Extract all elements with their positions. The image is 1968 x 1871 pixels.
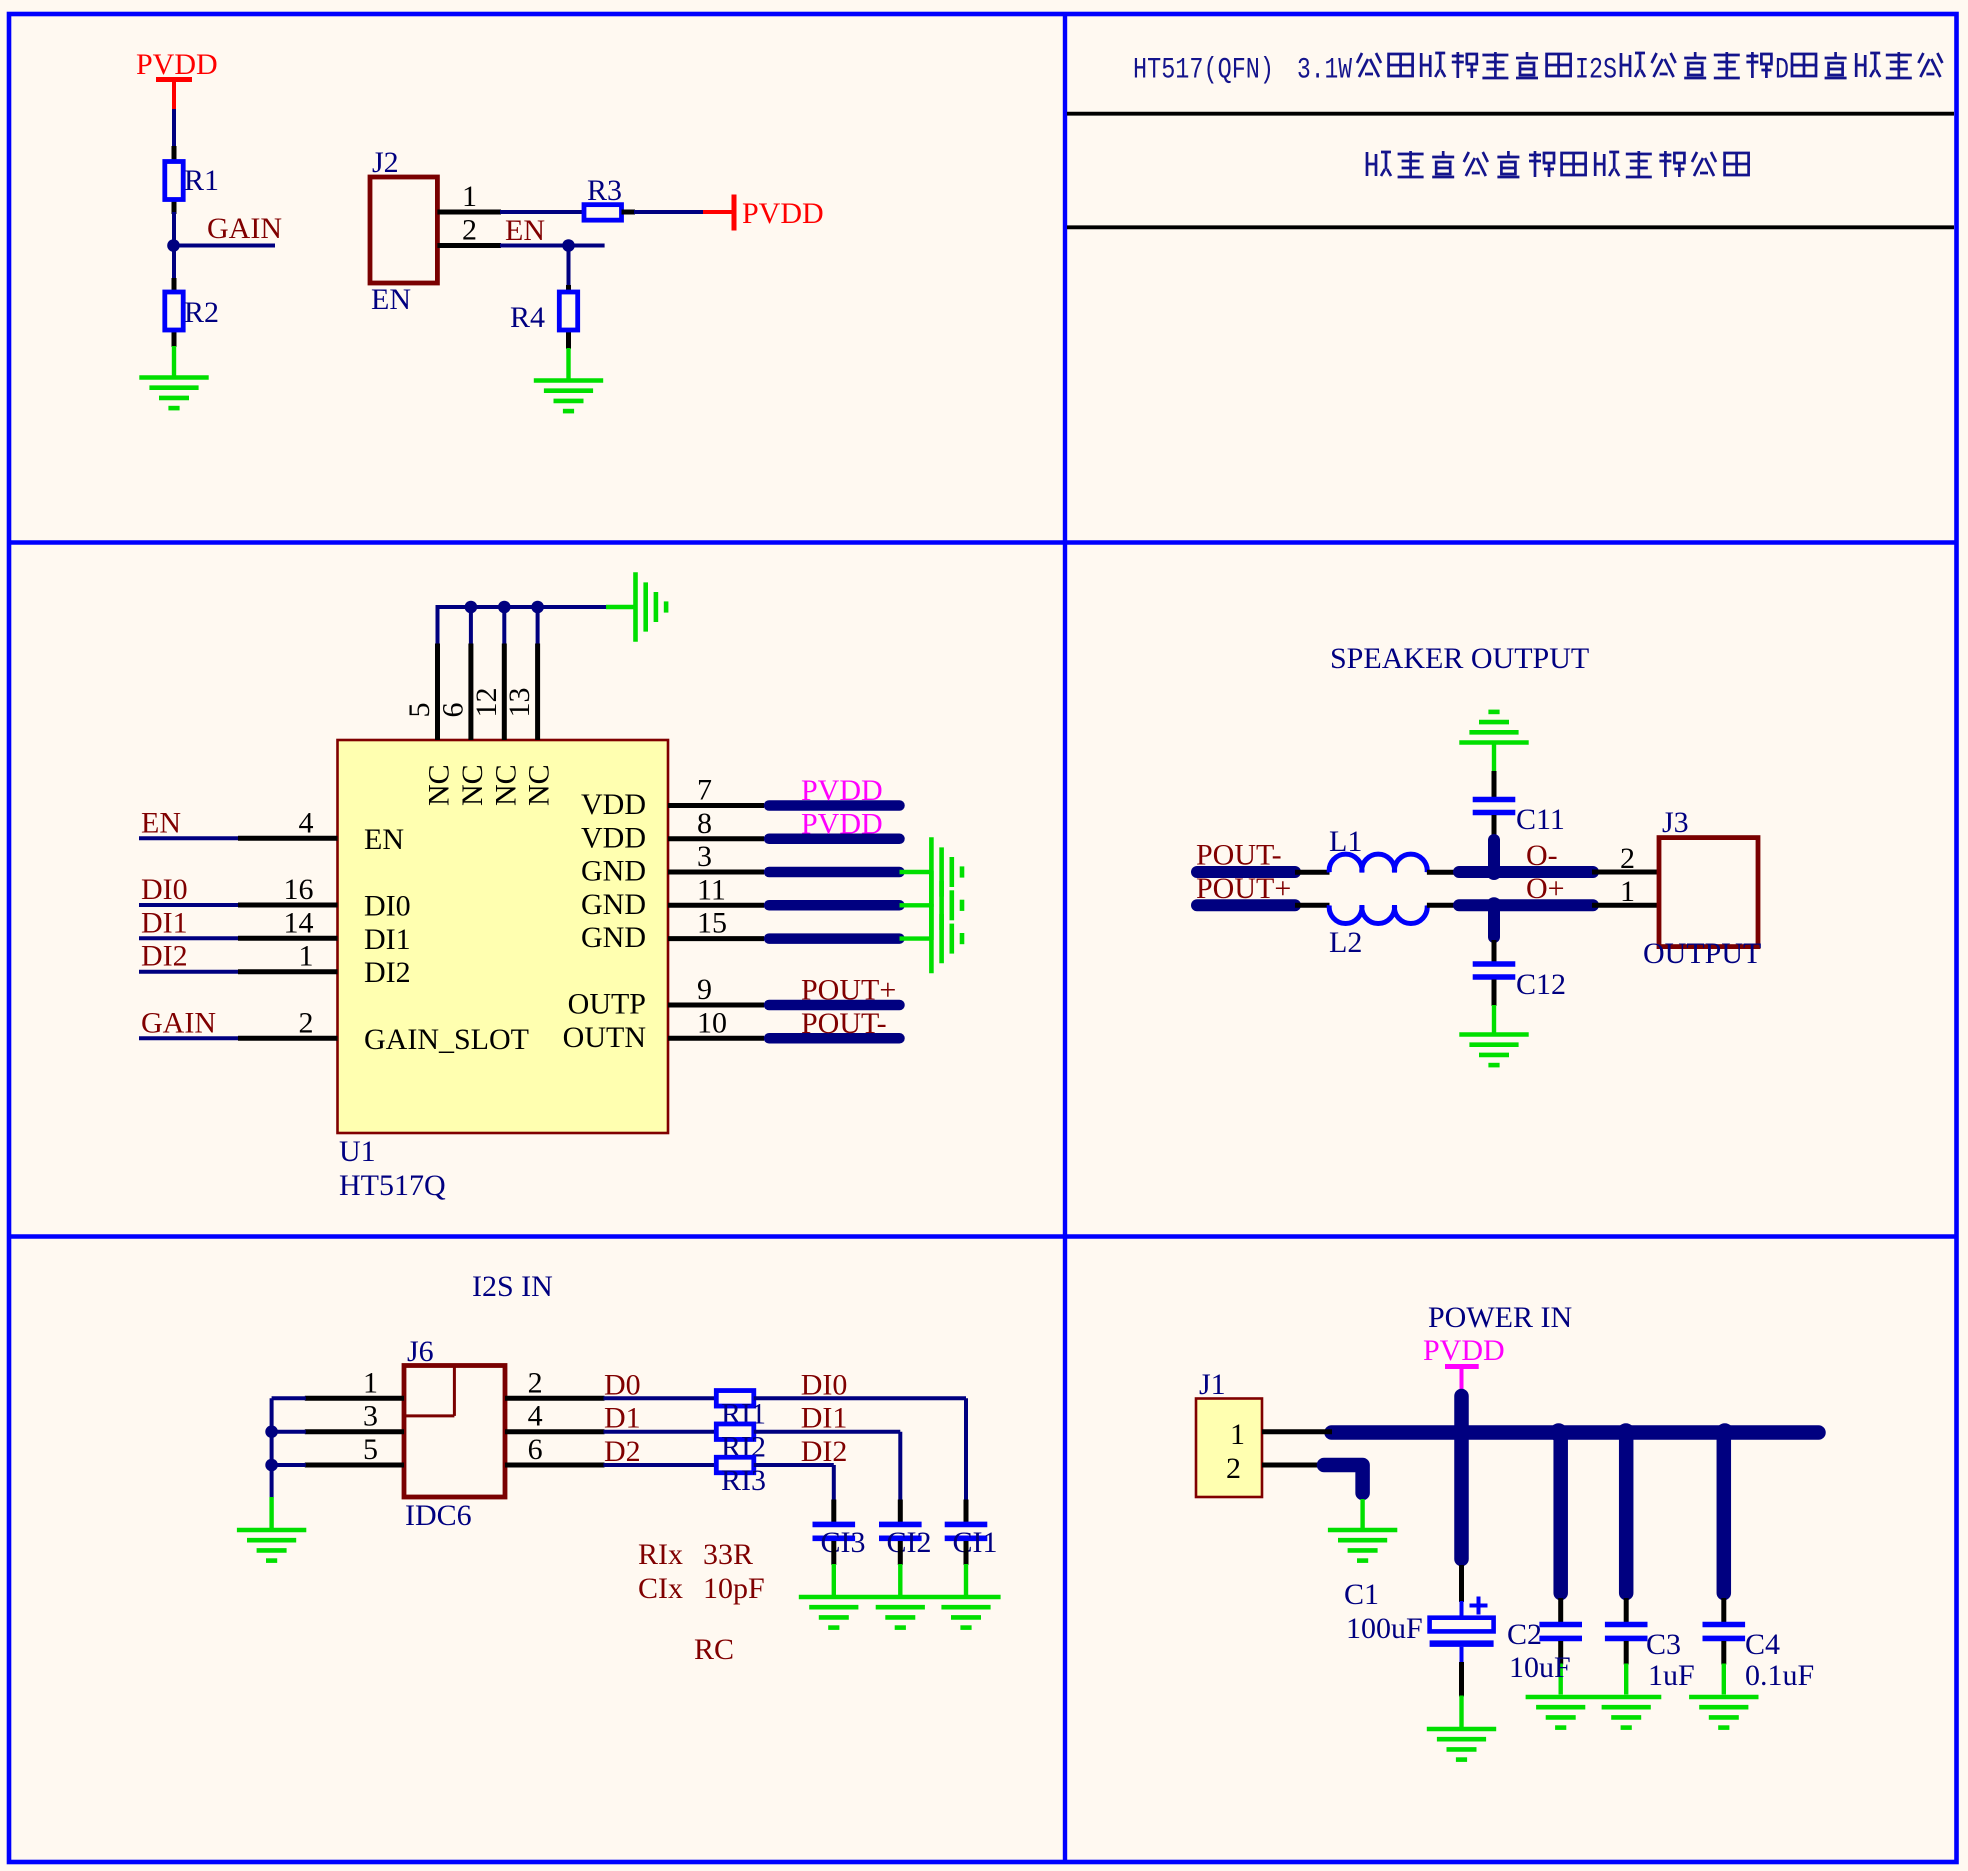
ground shared top bar (CI1-CI3) xyxy=(799,1595,1001,1600)
ground (J1.2) xyxy=(1328,1530,1397,1561)
svg-text:PVDD: PVDD xyxy=(136,48,218,81)
svg-text:3: 3 xyxy=(363,1400,378,1433)
svg-text:NC: NC xyxy=(489,764,522,806)
ground (R4) xyxy=(534,381,603,412)
pin 2 of J6 xyxy=(505,1396,605,1401)
pin 3 of U1 (GND) xyxy=(668,870,764,875)
svg-text:2: 2 xyxy=(462,214,477,247)
svg-text:DI0: DI0 xyxy=(364,890,411,923)
svg-text:NC: NC xyxy=(456,764,489,806)
svg-text:7: 7 xyxy=(697,774,712,807)
svg-text:EN: EN xyxy=(505,214,545,247)
svg-text:1: 1 xyxy=(1230,1418,1245,1451)
wire DI0 net (U1 left) xyxy=(139,903,239,907)
svg-text:NC: NC xyxy=(423,764,456,806)
svg-text:SPEAKER OUTPUT: SPEAKER OUTPUT xyxy=(1330,642,1589,675)
pin 2 of J2 xyxy=(437,243,501,248)
resistor RI3 xyxy=(716,1457,754,1473)
wire power bus xyxy=(1332,1425,1819,1440)
svg-text:EN: EN xyxy=(364,823,404,856)
node junction (NC bus) xyxy=(531,601,544,614)
resistor R1 xyxy=(165,146,183,214)
svg-text:U1: U1 xyxy=(339,1135,376,1168)
svg-text:GAIN: GAIN xyxy=(207,212,282,245)
ground shared bar (C2 C3) xyxy=(1526,1697,1662,1728)
svg-text:CI2: CI2 xyxy=(887,1526,932,1559)
svg-text:GND: GND xyxy=(581,855,646,888)
pin 15 of U1 (GND) xyxy=(668,936,764,941)
ground (U1 pin 3) xyxy=(931,837,962,906)
node GAIN junction xyxy=(167,239,180,252)
svg-text:10uF: 10uF xyxy=(1509,1651,1571,1684)
svg-text:DI0: DI0 xyxy=(141,873,188,906)
wire R1 to R2 (GAIN node) xyxy=(172,212,176,280)
pin 16 of U1 (DI0) xyxy=(238,903,338,908)
svg-text:C1: C1 xyxy=(1344,1578,1379,1611)
svg-text:R1: R1 xyxy=(184,164,219,197)
wire PVDD to bus xyxy=(1454,1396,1469,1433)
svg-text:PVDD: PVDD xyxy=(801,774,883,807)
wire green tail (pin 3) xyxy=(900,870,930,874)
wire O- thick xyxy=(1459,866,1593,878)
svg-text:D: D xyxy=(1775,53,1789,87)
svg-text:GND: GND xyxy=(581,921,646,954)
svg-text:HT517Q: HT517Q xyxy=(339,1169,446,1202)
power symbol PVDD (right of R3) xyxy=(703,195,824,231)
ground (below C12) xyxy=(1459,1035,1528,1066)
wire thick net (pin 11) xyxy=(769,900,900,911)
wire NC bus green tail xyxy=(606,605,634,609)
svg-text:4: 4 xyxy=(528,1400,543,1433)
pin 1 of U1 (DI2) xyxy=(238,969,338,974)
value note CIx 10pF xyxy=(638,1572,765,1605)
wire bus to C2 xyxy=(1553,1433,1568,1623)
IC U1 HT517Q body xyxy=(338,740,669,1133)
svg-text:J2: J2 xyxy=(372,146,399,179)
svg-text:GAIN_SLOT: GAIN_SLOT xyxy=(364,1023,529,1056)
svg-text:R2: R2 xyxy=(184,296,219,329)
svg-text:9: 9 xyxy=(697,973,712,1006)
svg-text:DI2: DI2 xyxy=(141,940,188,973)
ground bars (CI1) xyxy=(941,1607,990,1627)
wire POUT- stub xyxy=(1197,866,1295,878)
svg-text:POUT+: POUT+ xyxy=(1196,872,1291,905)
pin 6 of U1 (NC) xyxy=(469,605,473,740)
pin 1 of J6 xyxy=(305,1396,404,1401)
svg-text:2: 2 xyxy=(1226,1452,1241,1485)
svg-text:PVDD: PVDD xyxy=(1423,1334,1505,1367)
svg-text:RI3: RI3 xyxy=(721,1464,766,1497)
ground (U1 pin 15) xyxy=(931,904,962,973)
pin 11 of U1 (GND) xyxy=(668,903,764,908)
wire NC bus to ground xyxy=(438,605,607,609)
svg-text:L2: L2 xyxy=(1329,926,1362,959)
svg-text:0.1uF: 0.1uF xyxy=(1745,1659,1814,1692)
svg-text:100uF: 100uF xyxy=(1346,1612,1423,1645)
svg-text:1: 1 xyxy=(363,1366,378,1399)
wire J1.2 to ground (thick elbow) xyxy=(1324,1465,1363,1493)
capacitor C4 xyxy=(1703,1622,1746,1628)
svg-text:12: 12 xyxy=(470,688,503,718)
svg-text:PVDD: PVDD xyxy=(742,197,824,230)
title block separator lines xyxy=(1067,114,1954,228)
svg-text:POWER IN: POWER IN xyxy=(1428,1301,1572,1334)
resistor R2 xyxy=(165,278,183,347)
svg-text:1: 1 xyxy=(462,180,477,213)
svg-text:L1: L1 xyxy=(1329,825,1362,858)
pin 3 of J6 xyxy=(305,1429,404,1434)
svg-text:RC: RC xyxy=(694,1633,734,1666)
svg-text:3.1W: 3.1W xyxy=(1297,53,1352,87)
wire POUT+ to L2 xyxy=(1295,903,1330,908)
capacitor CI1 xyxy=(945,1522,988,1528)
capacitor C12 xyxy=(1473,961,1516,967)
wire J6.5 to ground rail xyxy=(272,1463,306,1467)
wire O+ to C12 xyxy=(1488,906,1500,962)
svg-text:GAIN: GAIN xyxy=(141,1006,216,1039)
pin 5 of J6 xyxy=(305,1463,404,1468)
wire C12 to ground xyxy=(1492,980,1497,1035)
svg-text:J3: J3 xyxy=(1662,806,1689,839)
svg-text:CIx: CIx xyxy=(638,1572,683,1605)
svg-text:33R: 33R xyxy=(703,1538,753,1571)
wire green tail (pin 11) xyxy=(900,903,930,907)
svg-text:5: 5 xyxy=(403,703,436,718)
wire L1 to O- xyxy=(1427,870,1456,875)
svg-text:J6: J6 xyxy=(407,1335,434,1368)
svg-text:CI1: CI1 xyxy=(953,1526,998,1559)
wire CI3 to ground xyxy=(831,1541,836,1595)
title line 2: Shenzhen Yongfukang Technology Co. Ltd. xyxy=(1367,151,1749,177)
wire GAIN net (U1 left) xyxy=(139,1036,239,1040)
wire green tail (pin 15) xyxy=(900,936,930,940)
svg-text:3: 3 xyxy=(697,840,712,873)
pin 10 of U1 (OUTN) xyxy=(668,1036,764,1041)
node junction (NC bus) xyxy=(498,601,511,614)
svg-text:6: 6 xyxy=(436,703,469,718)
resistor R4 xyxy=(559,285,577,349)
title line 1: HT517(QFN) 3.1W small low-power I2S mono class-D amp xyxy=(1133,52,1942,87)
svg-text:OUTPUT: OUTPUT xyxy=(1643,937,1761,970)
wire J6 left ground rail xyxy=(270,1398,274,1498)
connector J1 xyxy=(1196,1399,1262,1498)
wire rail to ground xyxy=(269,1497,273,1529)
ground (R2) xyxy=(139,378,208,409)
svg-text:1: 1 xyxy=(299,940,314,973)
resistor RI2 xyxy=(716,1424,754,1440)
svg-text:IDC6: IDC6 xyxy=(405,1499,472,1532)
ground bars (CI2) xyxy=(876,1607,925,1627)
node junction (bus-C4) xyxy=(1716,1423,1734,1441)
capacitor C11 xyxy=(1473,797,1516,803)
svg-text:EN: EN xyxy=(141,806,181,839)
wire L2 to O+ xyxy=(1427,903,1456,908)
svg-text:RIx: RIx xyxy=(638,1538,683,1571)
wire thick net (pin 9) xyxy=(769,1000,900,1011)
wire CI1 to ground xyxy=(964,1541,969,1595)
svg-text:DI1: DI1 xyxy=(801,1402,848,1435)
svg-text:CI3: CI3 xyxy=(821,1526,866,1559)
svg-text:O+: O+ xyxy=(1526,872,1565,905)
svg-text:POUT-: POUT- xyxy=(1196,839,1282,872)
connector J2 xyxy=(370,177,437,283)
svg-text:11: 11 xyxy=(697,873,726,906)
svg-text:VDD: VDD xyxy=(581,821,646,854)
svg-text:OUTP: OUTP xyxy=(568,988,646,1021)
svg-text:2: 2 xyxy=(299,1006,314,1039)
svg-text:I2S IN: I2S IN xyxy=(472,1270,553,1303)
wire RI1 to DI0 column xyxy=(754,1398,966,1522)
svg-text:1uF: 1uF xyxy=(1648,1659,1695,1692)
wire D2 to RI3 xyxy=(604,1463,718,1467)
svg-text:NC: NC xyxy=(523,764,556,806)
svg-text:J1: J1 xyxy=(1199,1368,1226,1401)
wire C3 to ground xyxy=(1624,1641,1629,1695)
wire bus to C3 xyxy=(1619,1433,1634,1623)
svg-text:POUT+: POUT+ xyxy=(801,974,896,1007)
wire C2 to ground xyxy=(1558,1641,1563,1695)
wire DI2 net (U1 left) xyxy=(139,970,239,974)
wire R4 to ground xyxy=(566,348,570,380)
wire POUT- to L1 xyxy=(1295,870,1330,875)
capacitor C3 xyxy=(1605,1622,1648,1628)
wire PVDD to R1 xyxy=(172,109,176,148)
wire J2.2 / EN net xyxy=(500,244,605,248)
wire EN to R4 xyxy=(567,246,571,288)
pin 6 of J6 xyxy=(505,1463,605,1468)
pin 1 of J2 xyxy=(437,210,501,215)
connector J6 xyxy=(404,1366,505,1498)
node junction (J6.5) xyxy=(265,1459,278,1472)
svg-text:R3: R3 xyxy=(587,174,622,207)
svg-text:C4: C4 xyxy=(1745,1628,1780,1661)
svg-text:POUT-: POUT- xyxy=(801,1007,887,1040)
svg-text:C12: C12 xyxy=(1516,968,1566,1001)
wire D1 to RI2 xyxy=(604,1430,718,1434)
svg-text:C3: C3 xyxy=(1646,1628,1681,1661)
ground (NC pins) xyxy=(636,572,667,641)
ground (J6) xyxy=(237,1530,306,1561)
wire thick net (pin 3) xyxy=(769,867,900,878)
node junction (NC bus) xyxy=(465,601,478,614)
svg-text:13: 13 xyxy=(503,688,536,718)
wire O+ thick xyxy=(1459,899,1593,911)
capacitor C1 (electrolytic, polarity +) xyxy=(1430,1597,1494,1644)
pin 12 of U1 (NC) xyxy=(502,605,506,740)
wire RI2 to DI1 column xyxy=(754,1432,901,1522)
wire J6.1 to ground rail xyxy=(272,1396,306,1400)
pin 7 of U1 (VDD) xyxy=(668,803,764,808)
wire thick net (pin 7) xyxy=(769,800,900,811)
wire EN net (U1 left) xyxy=(139,836,239,840)
svg-text:8: 8 xyxy=(697,807,712,840)
svg-text:VDD: VDD xyxy=(581,788,646,821)
wire elbow green tail xyxy=(1360,1499,1364,1529)
ground bars (CI3) xyxy=(809,1607,858,1627)
ground (C4) xyxy=(1689,1697,1758,1728)
wire C4 to ground xyxy=(1721,1641,1726,1695)
svg-text:OUTN: OUTN xyxy=(563,1021,646,1054)
svg-text:HT517(QFN): HT517(QFN) xyxy=(1133,53,1274,87)
svg-text:EN: EN xyxy=(371,283,411,316)
wire C11 to O- node xyxy=(1492,815,1497,871)
svg-text:DI2: DI2 xyxy=(364,956,411,989)
node junction (bus-C3) xyxy=(1617,1423,1635,1441)
ground (above C11, inverted) xyxy=(1459,712,1528,743)
ground (U1 pin 11) xyxy=(931,871,962,940)
wire J2.1 to R3 xyxy=(500,210,585,214)
wire D0 to RI1 xyxy=(604,1396,718,1400)
svg-text:14: 14 xyxy=(284,906,314,939)
wire RI3 to DI2 column xyxy=(754,1465,834,1522)
svg-text:10pF: 10pF xyxy=(703,1572,765,1605)
wire ground to C11 xyxy=(1492,743,1496,798)
ground (C1) xyxy=(1427,1729,1496,1760)
pin 5 of U1 (NC) xyxy=(436,605,440,740)
node junction O- xyxy=(1486,864,1502,880)
pin 2 of J1 xyxy=(1262,1463,1325,1468)
pin 1 of J1 xyxy=(1262,1429,1332,1434)
svg-text:2: 2 xyxy=(528,1366,543,1399)
node junction O+ xyxy=(1486,897,1502,913)
pin 14 of U1 (DI1) xyxy=(238,936,338,941)
node junction (bus-C2) xyxy=(1549,1423,1567,1441)
svg-text:4: 4 xyxy=(299,806,314,839)
pin 13 of U1 (NC) xyxy=(536,605,540,740)
wire DI1 net (U1 left) xyxy=(139,936,239,940)
svg-text:R4: R4 xyxy=(510,301,545,334)
svg-text:O-: O- xyxy=(1526,839,1558,872)
svg-text:DI0: DI0 xyxy=(801,1368,848,1401)
svg-text:5: 5 xyxy=(363,1433,378,1466)
wire POUT+ stub xyxy=(1197,899,1295,911)
power symbol PVDD (power in) xyxy=(1423,1334,1505,1396)
node junction (J6.3) xyxy=(265,1425,278,1438)
svg-text:PVDD: PVDD xyxy=(801,807,883,840)
wire CI2 to ground xyxy=(898,1541,903,1595)
wire bus to C4 xyxy=(1717,1433,1732,1623)
capacitor CI2 xyxy=(879,1522,922,1528)
svg-text:DI2: DI2 xyxy=(801,1435,848,1468)
svg-text:15: 15 xyxy=(697,907,727,940)
wire J6.3 to ground rail xyxy=(272,1430,306,1434)
pin 4 of U1 (EN) xyxy=(238,836,338,841)
power symbol PVDD (R1 divider) xyxy=(136,48,218,109)
wire C1 to ground xyxy=(1460,1647,1464,1728)
pin 2 of J3 xyxy=(1592,870,1660,875)
pin 4 of J6 xyxy=(505,1429,605,1434)
inductor L1 xyxy=(1329,854,1427,872)
capacitor CI3 xyxy=(813,1522,856,1528)
svg-text:GND: GND xyxy=(581,888,646,921)
inductor L2 xyxy=(1329,905,1427,923)
wire thick net (pin 10) xyxy=(769,1033,900,1044)
wire thick net (pin 8) xyxy=(769,834,900,845)
svg-text:DI1: DI1 xyxy=(141,906,188,939)
pin 8 of U1 (VDD) xyxy=(668,836,764,841)
wire thick net (pin 15) xyxy=(769,933,900,944)
resistor RI1 xyxy=(716,1391,754,1407)
value note RIx 33R xyxy=(638,1538,753,1571)
wire bus to C1 xyxy=(1454,1433,1469,1619)
svg-text:I2S: I2S xyxy=(1575,53,1617,87)
capacitor C2 xyxy=(1539,1622,1582,1628)
svg-text:C2: C2 xyxy=(1507,1618,1542,1651)
svg-text:C11: C11 xyxy=(1516,803,1565,836)
svg-text:DI1: DI1 xyxy=(364,923,411,956)
svg-text:16: 16 xyxy=(284,873,314,906)
pin 9 of U1 (OUTP) xyxy=(668,1003,764,1008)
pin 2 of U1 (GAIN_SLOT) xyxy=(238,1036,338,1041)
wire R3 to PVDD xyxy=(634,210,704,214)
wire R2 to ground xyxy=(172,346,176,377)
connector J3 xyxy=(1659,838,1758,947)
wire GAIN stub xyxy=(174,244,276,248)
node EN junction xyxy=(562,239,575,252)
resistor R3 xyxy=(584,205,635,221)
svg-text:6: 6 xyxy=(528,1433,543,1466)
svg-text:10: 10 xyxy=(697,1006,727,1039)
pin 1 of J3 xyxy=(1592,903,1660,908)
